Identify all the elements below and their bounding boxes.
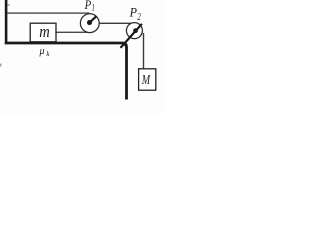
svg-text:P: P bbox=[84, 0, 92, 12]
svg-text:2: 2 bbox=[137, 12, 140, 23]
svg-text:μ: μ bbox=[39, 46, 45, 57]
mass M box bbox=[139, 69, 156, 90]
string: P1 axle to over pulley P2 bbox=[91, 23, 131, 24]
svg-text:M: M bbox=[141, 73, 151, 88]
wall hatch tick bbox=[7, 4, 9, 5]
pulley P2 axle bbox=[133, 28, 138, 33]
edge smudge artifact bbox=[0, 64, 1, 67]
wall (left vertical support) bbox=[5, 0, 8, 44]
string: block m to bottom of pulley P1 bbox=[56, 32, 89, 33]
svg-text:1: 1 bbox=[92, 3, 95, 14]
pulley P1 bbox=[80, 14, 99, 33]
pulley P1 arm bbox=[89, 16, 96, 23]
svg-text:P: P bbox=[129, 5, 138, 19]
pulley P1 axle bbox=[87, 20, 92, 25]
string: pulley P2 down to mass M bbox=[143, 33, 144, 69]
block m bbox=[30, 23, 56, 42]
string: wall to pulley P1 (top) bbox=[7, 12, 89, 13]
pulley P2 bbox=[126, 23, 142, 39]
pulley P2 arm (mount from table corner) bbox=[121, 24, 142, 48]
table (top surface + right edge, rounded corner) bbox=[5, 42, 128, 100]
svg-text:m: m bbox=[39, 22, 50, 41]
